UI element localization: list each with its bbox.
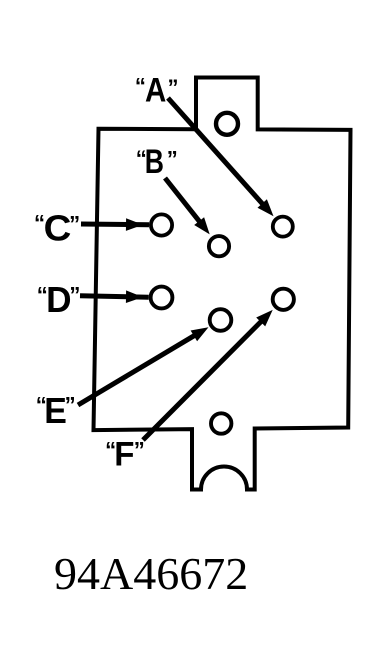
pin C (151, 214, 172, 235)
label E (36, 390, 76, 431)
svg-text:”: ” (134, 437, 145, 462)
svg-text:”: ” (65, 392, 76, 417)
svg-text:C: C (44, 208, 72, 249)
label D (37, 279, 81, 320)
label C (34, 208, 80, 249)
svg-text:F: F (114, 435, 134, 473)
arrow to pin C (81, 218, 149, 231)
pin B (209, 236, 229, 256)
pin D (151, 287, 173, 309)
arrow to pin A (168, 98, 274, 216)
svg-text:”: ” (69, 282, 80, 307)
svg-text:B: B (145, 143, 164, 181)
label A (135, 72, 179, 110)
connector body outline (94, 78, 351, 490)
mounting hole top tab (216, 113, 238, 135)
pin E (210, 309, 232, 331)
arrow to pin F (143, 310, 273, 440)
svg-text:E: E (44, 390, 67, 431)
svg-text:”: ” (69, 212, 80, 237)
arrow to pin D (80, 290, 149, 303)
mounting hole bottom (211, 413, 231, 433)
svg-text:D: D (46, 279, 71, 320)
label F (105, 435, 145, 473)
label B (136, 143, 178, 181)
svg-text:94A46672: 94A46672 (54, 548, 248, 599)
pin F (273, 289, 294, 310)
svg-text:A: A (145, 72, 166, 110)
arrow to pin E (78, 327, 209, 405)
arrow to pin B (165, 178, 210, 234)
svg-text:”: ” (167, 147, 178, 172)
pin A (273, 217, 293, 237)
svg-text:”: ” (168, 75, 179, 100)
